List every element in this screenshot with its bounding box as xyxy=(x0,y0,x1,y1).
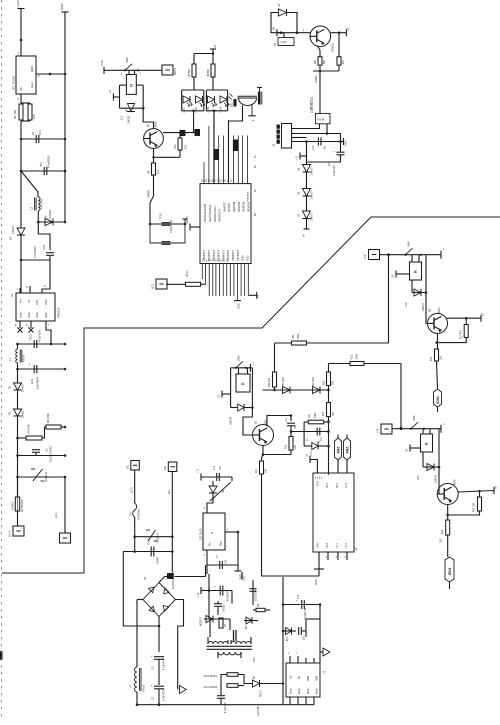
wire collector xyxy=(447,313,485,322)
svg-text:B07/187: B07/187 xyxy=(228,202,231,212)
svg-text:VDD: VDD xyxy=(317,481,320,486)
svg-text:GND8: GND8 xyxy=(315,75,318,83)
wire xyxy=(338,33,340,57)
svg-text:10K: 10K xyxy=(333,411,335,416)
relay RL4 xyxy=(421,429,433,452)
wire emitter xyxy=(317,46,320,57)
sensor LP1 xyxy=(434,389,442,407)
wire xyxy=(38,221,66,224)
capacitor C11b xyxy=(250,588,258,601)
wire xyxy=(412,255,427,294)
svg-text:Drain: Drain xyxy=(298,688,301,694)
svg-text:FU1: FU1 xyxy=(130,511,133,516)
svg-text:10K: 10K xyxy=(441,355,443,360)
wire rung xyxy=(18,476,67,479)
capacitor C2 xyxy=(39,155,51,175)
svg-text:PS-M: PS-M xyxy=(318,118,324,122)
svg-text:1N4007: 1N4007 xyxy=(312,166,314,175)
wire xyxy=(17,363,19,383)
svg-text:C19: C19 xyxy=(214,465,216,470)
bridge rectifier V2 xyxy=(143,576,176,616)
connector AC-N xyxy=(8,526,25,537)
svg-text:D13: D13 xyxy=(417,475,420,480)
svg-text:10K: 10K xyxy=(441,538,443,543)
svg-text:SPKR1: SPKR1 xyxy=(147,189,151,198)
svg-text:D7: D7 xyxy=(9,236,13,240)
svg-text:U1: U1 xyxy=(10,293,14,297)
svg-text:IC3 78L05: IC3 78L05 xyxy=(200,528,203,540)
svg-text:D2: D2 xyxy=(8,411,12,415)
pin xyxy=(336,552,339,560)
diode D7 xyxy=(9,225,26,240)
svg-text:JK2: JK2 xyxy=(364,254,367,259)
svg-text:IC1 78L05: IC1 78L05 xyxy=(12,76,16,90)
svg-text:+: + xyxy=(151,654,153,658)
capacitor EC3 xyxy=(29,363,40,389)
svg-text:200K: 200K xyxy=(314,412,317,418)
svg-text:RB3/INT4: RB3/INT4 xyxy=(218,249,221,261)
svg-text:FB: FB xyxy=(28,300,31,303)
wire left drop xyxy=(123,552,160,628)
wire to Q1 xyxy=(143,108,153,128)
svg-text:R6 560: R6 560 xyxy=(207,68,210,77)
pin VDD xyxy=(306,454,317,473)
pin xyxy=(345,552,348,560)
diode D8 xyxy=(244,617,258,629)
capacitor C5 xyxy=(215,584,230,601)
wire xyxy=(16,416,19,497)
label xyxy=(204,675,218,678)
relay RL1 xyxy=(126,70,136,94)
LED group 1 frame xyxy=(182,77,204,112)
diode D3 xyxy=(313,377,321,394)
zener ZD1 xyxy=(121,104,136,125)
wire relay loop xyxy=(120,85,145,109)
crystal X2 xyxy=(344,435,351,461)
pin 7 xyxy=(46,321,51,344)
svg-text:1000uF/16V: 1000uF/16V xyxy=(305,607,307,620)
svg-text:SC3: SC3 xyxy=(42,244,46,250)
wire xyxy=(437,338,467,343)
wire stub xyxy=(437,407,439,412)
wire xyxy=(20,9,22,57)
pin 6 nc xyxy=(26,321,34,333)
wire xyxy=(287,13,299,35)
capacitor C7b xyxy=(217,554,228,569)
wire to SW4 xyxy=(307,255,389,343)
svg-text:RB7/INT8: RB7/INT8 xyxy=(237,249,240,261)
svg-text:10K: 10K xyxy=(185,144,188,149)
svg-text:1N4007: 1N4007 xyxy=(22,409,25,418)
svg-text:R24: R24 xyxy=(292,334,295,339)
svg-text:+: + xyxy=(215,584,217,588)
resistor R3 xyxy=(18,424,43,440)
resistor R2 xyxy=(28,104,36,120)
wire xyxy=(324,421,329,423)
U2 top pins xyxy=(204,111,247,184)
wire xyxy=(380,253,442,256)
svg-text:RA1/7SD0/BA1: RA1/7SD0/BA1 xyxy=(209,204,212,222)
wire xyxy=(20,139,22,171)
zener Z1 xyxy=(304,438,328,456)
IC U2 microcontroller xyxy=(200,181,251,264)
svg-text:C1: C1 xyxy=(108,89,112,93)
wire xyxy=(20,235,22,293)
wire base xyxy=(273,27,311,37)
svg-text:C1: C1 xyxy=(31,131,35,135)
svg-text:ION2: ION2 xyxy=(448,567,452,575)
svg-text:SW5: SW5 xyxy=(413,415,416,421)
fuse FU1 xyxy=(130,503,141,520)
node +12c xyxy=(197,587,205,597)
svg-text:LED1: LED1 xyxy=(183,106,186,113)
svg-text:RB2/INT3: RB2/INT3 xyxy=(213,249,216,261)
wire xyxy=(283,603,321,606)
svg-text:R: R xyxy=(424,442,429,445)
wire xyxy=(230,368,232,408)
svg-text:4.7uF/400V: 4.7uF/400V xyxy=(164,658,166,670)
module PS-M box xyxy=(310,97,331,124)
svg-text:4V7: 4V7 xyxy=(287,636,289,641)
wire xyxy=(166,283,186,285)
capacitor C13 xyxy=(217,696,225,705)
wire stub xyxy=(449,582,451,589)
transistor Q1 xyxy=(144,121,164,149)
resistor R12 xyxy=(286,426,298,455)
svg-text:5.1V: 5.1V xyxy=(311,451,313,456)
node C7 xyxy=(218,391,231,399)
svg-text:+: + xyxy=(151,684,153,688)
wire xyxy=(292,137,307,139)
pin xyxy=(337,460,339,473)
svg-text:200K: 200K xyxy=(356,354,359,360)
svg-text:R4 150k: R4 150k xyxy=(46,413,50,423)
resistor R4 xyxy=(46,413,66,429)
varistor RV1 xyxy=(31,469,48,482)
svg-text:SW4: SW4 xyxy=(408,241,411,247)
svg-text:MDT5: MDT5 xyxy=(173,67,177,75)
svg-text:2.2uF/16V: 2.2uF/16V xyxy=(334,165,336,176)
diode D7p xyxy=(201,616,214,627)
resistor R25 xyxy=(350,354,364,366)
svg-text:D3 4148: D3 4148 xyxy=(313,377,315,386)
resistor R17 xyxy=(461,318,469,339)
svg-text:GND: GND xyxy=(45,299,48,305)
svg-text:EC1: EC1 xyxy=(29,333,33,339)
svg-text:L2: L2 xyxy=(30,206,34,210)
label xyxy=(225,702,227,713)
svg-text:R03/SN3: R03/SN3 xyxy=(247,201,250,212)
svg-text:R: R xyxy=(413,270,418,273)
switch SW5 xyxy=(410,415,445,433)
inductor L3 xyxy=(129,667,146,692)
svg-text:GND: GND xyxy=(315,579,318,585)
svg-text:104: 104 xyxy=(324,145,327,150)
buzzer BZ1 xyxy=(229,94,258,122)
diode D4 xyxy=(298,211,314,221)
capacitor C8 bars xyxy=(234,630,237,641)
module U5 xyxy=(273,124,292,149)
IC U3 PM chip xyxy=(286,663,326,697)
svg-text:R4 1K: R4 1K xyxy=(186,270,189,277)
wire xyxy=(260,683,284,685)
wire to Q4 base xyxy=(439,467,442,494)
svg-text:GND: GND xyxy=(186,216,189,222)
svg-text:GND: GND xyxy=(238,303,241,309)
svg-text:RA0/SE1/SDA/2: RA0/SE1/SDA/2 xyxy=(204,203,207,222)
wire LED column 1 xyxy=(193,111,195,133)
svg-text:+(27)18V: +(27)18V xyxy=(257,706,260,716)
svg-text:TR1: TR1 xyxy=(253,657,256,662)
svg-text:AC-L: AC-L xyxy=(168,488,171,494)
svg-text:GND: GND xyxy=(242,255,245,261)
border frame of mains section xyxy=(2,217,500,573)
wire AC-L xyxy=(168,472,174,573)
pin 1 xyxy=(17,287,21,293)
svg-text:Drain: Drain xyxy=(45,312,48,318)
svg-text:RA2/SCK/SCL: RA2/SCK/SCL xyxy=(214,205,217,222)
capacitor SC3 xyxy=(33,244,54,258)
wire xyxy=(231,407,238,409)
wire xyxy=(340,134,342,152)
svg-text:ZL2: ZL2 xyxy=(121,115,124,120)
resistor R22 xyxy=(269,372,277,387)
svg-text:R: R xyxy=(240,382,245,385)
resistor R5 xyxy=(188,54,196,78)
wire xyxy=(245,368,254,409)
wire loop xyxy=(304,422,308,446)
node +5 U2 xyxy=(186,221,200,231)
capacitor EC1 xyxy=(29,329,42,348)
svg-text:Drain: Drain xyxy=(36,312,39,318)
sensor LP2 xyxy=(445,557,454,582)
svg-text:470uH: 470uH xyxy=(23,354,26,362)
pin annotations xyxy=(255,155,257,216)
U2 bottom pins xyxy=(202,264,248,301)
LED1 xyxy=(183,96,193,113)
wire collector xyxy=(458,486,497,494)
wire xyxy=(37,211,40,223)
svg-text:CX: CX xyxy=(46,448,49,452)
wire step xyxy=(38,222,50,250)
crystal X1 xyxy=(335,435,342,461)
svg-text:U-F5: U-F5 xyxy=(281,40,287,44)
svg-text:C10: C10 xyxy=(312,145,315,150)
ground xyxy=(234,301,241,309)
wire rail right xyxy=(282,577,285,705)
svg-text:1A/250VAC: 1A/250VAC xyxy=(138,508,141,520)
capacitor CB1 xyxy=(257,88,262,105)
switch SW3 xyxy=(235,355,255,372)
wire xyxy=(158,689,161,706)
svg-text:1N4007: 1N4007 xyxy=(312,212,314,221)
resistor R1 xyxy=(13,104,23,120)
svg-text:RA5/AN4: RA5/AN4 xyxy=(247,191,250,201)
wire node +12b xyxy=(197,468,233,480)
resistor R16 xyxy=(186,270,206,287)
wire xyxy=(238,675,253,686)
svg-text:Drain: Drain xyxy=(28,312,31,318)
svg-text:C12: C12 xyxy=(298,594,300,599)
wire xyxy=(448,511,480,515)
pin 8 nc xyxy=(15,321,23,333)
svg-text:R21: R21 xyxy=(308,413,311,418)
svg-text:+B: +B xyxy=(495,486,498,489)
svg-text:Drain: Drain xyxy=(290,688,293,694)
node C8 xyxy=(392,271,410,279)
fuse FUSE1 xyxy=(11,477,25,512)
resistor RM2 xyxy=(227,684,238,688)
resistor R6 xyxy=(207,54,215,78)
svg-text:C4 562: C4 562 xyxy=(224,604,226,612)
svg-text:P1 5: P1 5 xyxy=(345,482,348,488)
capacitor C11 xyxy=(317,428,323,442)
wire xyxy=(306,197,308,212)
svg-text:GND: GND xyxy=(308,676,310,681)
svg-text:10D471K: 10D471K xyxy=(45,471,48,482)
diode D5m xyxy=(231,404,245,425)
node S-2N xyxy=(100,60,104,74)
wire rung xyxy=(16,368,66,371)
svg-text:GND: GND xyxy=(345,140,348,146)
node +24V xyxy=(16,0,25,9)
node +B xyxy=(248,292,260,299)
svg-text:0.1uF/275VAC: 0.1uF/275VAC xyxy=(50,446,53,462)
transistor Q3 xyxy=(253,419,274,446)
svg-text:+12: +12 xyxy=(197,592,200,597)
net name blobs xyxy=(213,140,238,161)
svg-text:AC/1 /MOD2: AC/1 /MOD2 xyxy=(204,686,218,689)
wire xyxy=(133,517,136,553)
svg-text:10uF/400V: 10uF/400V xyxy=(37,376,40,389)
wire to PS-M xyxy=(315,71,320,114)
wire xyxy=(392,427,441,430)
svg-text:P2.0: P2.0 xyxy=(326,542,329,548)
svg-text:P0 0: P0 0 xyxy=(326,482,329,488)
svg-text:P1.1: P1.1 xyxy=(336,542,339,548)
wire LED column 2 to U2 xyxy=(213,111,215,184)
svg-text:1N5392: 1N5392 xyxy=(48,209,52,219)
svg-text:Drain: Drain xyxy=(307,688,310,694)
wire xyxy=(17,511,19,526)
LED4 xyxy=(220,96,230,113)
svg-text:+24V: +24V xyxy=(16,0,20,7)
wire GND rail xyxy=(60,3,69,140)
svg-text:R23: R23 xyxy=(324,380,326,385)
capacitor C20 xyxy=(286,417,297,429)
wire xyxy=(273,387,276,391)
svg-text:470uH: 470uH xyxy=(143,685,146,692)
connector AC-L xyxy=(54,512,71,543)
svg-text:FR107: FR107 xyxy=(11,225,15,234)
svg-text:1N4007: 1N4007 xyxy=(423,302,425,311)
svg-text:SW3: SW3 xyxy=(238,355,241,361)
wire xyxy=(292,140,344,143)
wire xyxy=(262,455,264,462)
wire to Q3 base xyxy=(243,408,252,436)
svg-text:S01: S01 xyxy=(127,464,130,469)
resistor R21t xyxy=(337,57,345,65)
svg-text:R13: R13 xyxy=(323,411,325,416)
resistor RM1 xyxy=(227,673,238,677)
wire xyxy=(20,170,67,173)
capacitor C12 block xyxy=(149,213,189,245)
switch SW4 xyxy=(404,241,445,259)
diode D1 xyxy=(8,383,25,392)
IC1 7805 regulator xyxy=(12,52,41,102)
svg-text:GND: GND xyxy=(317,542,320,548)
svg-text:JK3: JK3 xyxy=(377,428,380,433)
svg-text:7 1 3 4: 7 1 3 4 xyxy=(315,478,323,480)
wire buzzer to U2 xyxy=(229,106,243,184)
svg-text:R17 470: R17 470 xyxy=(461,330,463,339)
svg-text:10K: 10K xyxy=(266,468,268,473)
svg-text:10K: 10K xyxy=(157,169,160,174)
arrow out1 xyxy=(180,686,187,694)
connector JK3 xyxy=(377,424,393,434)
svg-text:RB1/INT2: RB1/INT2 xyxy=(208,249,211,261)
wire xyxy=(17,390,19,409)
wire xyxy=(307,155,341,162)
resistor R10 xyxy=(174,133,188,158)
svg-text:4.7uF/50V: 4.7uF/50V xyxy=(33,246,37,258)
svg-text:BZ1: BZ1 xyxy=(231,102,234,107)
resistor R11 xyxy=(256,461,268,474)
diode D13 xyxy=(405,289,425,311)
svg-text:C2: C2 xyxy=(39,162,43,166)
svg-text:2A 250VAC: 2A 250VAC xyxy=(21,499,24,512)
svg-text:AC-N: AC-N xyxy=(8,531,12,537)
wire xyxy=(283,33,285,38)
svg-text:2200uF/16V: 2200uF/16V xyxy=(170,220,173,233)
svg-text:LED3: LED3 xyxy=(207,106,210,113)
pin GND xyxy=(314,552,324,585)
svg-text:8050: 8050 xyxy=(454,479,457,485)
svg-text:C12: C12 xyxy=(159,213,163,218)
wire xyxy=(313,65,339,72)
svg-text:LED2: LED2 xyxy=(195,106,198,113)
svg-text:RB4/INT5: RB4/INT5 xyxy=(222,249,225,261)
svg-text:GND: GND xyxy=(243,575,246,581)
resistor R24 xyxy=(292,333,307,345)
wire AC-N xyxy=(131,470,135,503)
resistor R7 xyxy=(219,618,227,628)
wire xyxy=(274,343,276,372)
svg-text:+12: +12 xyxy=(296,155,299,160)
wire to SW5 xyxy=(364,364,402,430)
pin xyxy=(326,552,329,560)
node B+ xyxy=(303,219,310,237)
svg-text:+B: +B xyxy=(482,313,485,316)
svg-text:P1.2: P1.2 xyxy=(345,542,348,548)
svg-text:1N4007: 1N4007 xyxy=(22,383,25,392)
svg-text:ION1: ION1 xyxy=(436,396,440,404)
svg-text:FB: FB xyxy=(299,676,301,679)
wire xyxy=(137,600,143,668)
wire xyxy=(231,367,253,369)
wire xyxy=(290,430,329,433)
svg-text:220/250VAC: 220/250VAC xyxy=(255,588,258,601)
resistor R14 xyxy=(441,520,450,543)
wire xyxy=(104,69,162,71)
wire collector xyxy=(267,414,292,426)
wire xyxy=(319,605,321,664)
wire xyxy=(150,196,154,224)
wire xyxy=(329,363,351,365)
LED3 xyxy=(207,96,217,113)
wire bottom rail xyxy=(137,703,314,706)
svg-text:AC1: AC1 xyxy=(152,284,155,289)
